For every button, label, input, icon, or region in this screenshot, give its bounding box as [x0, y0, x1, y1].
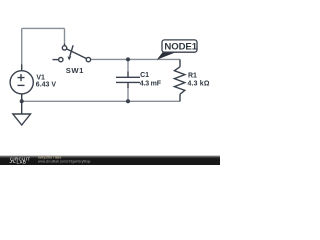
wire: drop from top rail to switch throw terminal	[64, 28, 66, 43]
svg-text:NODE1: NODE1	[164, 41, 197, 52]
svg-text:SW1: SW1	[66, 66, 84, 75]
junction: capacitor bottom on rail	[126, 99, 130, 103]
switch SW1 actuation arrowhead	[68, 56, 72, 60]
svg-text:6.43 V: 6.43 V	[36, 82, 57, 89]
svg-text:C1: C1	[140, 72, 149, 79]
junction: V1 / ground on bottom rail	[20, 99, 24, 103]
capacitor C1	[116, 72, 140, 89]
voltage source V1	[10, 64, 33, 100]
ground	[13, 101, 31, 125]
svg-text:www.circuitlab.com/c7dgwn6xy5k: www.circuitlab.com/c7dgwn6xy5kqe	[38, 160, 91, 164]
svg-text:4.3 kΩ: 4.3 kΩ	[188, 81, 210, 88]
wire: V1 bottom terminal to bottom rail	[21, 94, 23, 101]
wire: left rail from top corner down to V1 top terminal	[21, 28, 23, 64]
junction: capacitor top on rail	[126, 57, 130, 61]
watermark logo waveform	[10, 161, 16, 163]
wire: top rail from switch common to resistor corner	[91, 58, 180, 60]
node NODE1 flag box	[162, 40, 197, 52]
node NODE1 flag tail	[157, 52, 176, 60]
wire: bottom rail from ground junction to resistor corner	[22, 100, 180, 102]
wire: top rail from left corner to switch drop	[22, 27, 65, 29]
wire: capacitor top stub (gray part)	[127, 59, 129, 71]
svg-text:4.3 mF: 4.3 mF	[140, 81, 162, 88]
svg-text:R1: R1	[188, 73, 197, 80]
svg-text:LAB: LAB	[17, 160, 27, 165]
switch SW1	[53, 44, 91, 62]
wire: capacitor bottom stub (gray part)	[127, 88, 129, 101]
resistor R1	[174, 59, 184, 101]
svg-text:V1: V1	[36, 74, 45, 81]
